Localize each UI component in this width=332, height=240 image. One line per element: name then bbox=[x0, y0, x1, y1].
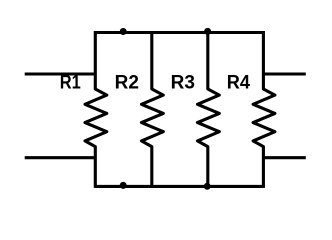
svg-text:R4: R4 bbox=[227, 73, 251, 94]
svg-text:R2: R2 bbox=[115, 73, 139, 94]
svg-text:R3: R3 bbox=[171, 73, 195, 94]
node dot top A bbox=[120, 28, 127, 35]
svg-text:R1: R1 bbox=[60, 73, 81, 94]
wire left input bottom bbox=[25, 156, 96, 159]
wire right output top bbox=[263, 72, 305, 75]
resistor R3 bbox=[198, 31, 220, 188]
wire top bus bbox=[95, 31, 263, 34]
resistor R1 bbox=[85, 31, 107, 188]
resistor R2 bbox=[142, 31, 164, 188]
wire bottom bus bbox=[95, 185, 263, 188]
node dot bottom A bbox=[120, 182, 127, 189]
wire right output bottom bbox=[263, 156, 305, 159]
wire left input top bbox=[25, 72, 96, 75]
node dot bottom B bbox=[204, 183, 211, 190]
node dot top B bbox=[204, 28, 211, 35]
resistor R4 bbox=[253, 31, 275, 188]
